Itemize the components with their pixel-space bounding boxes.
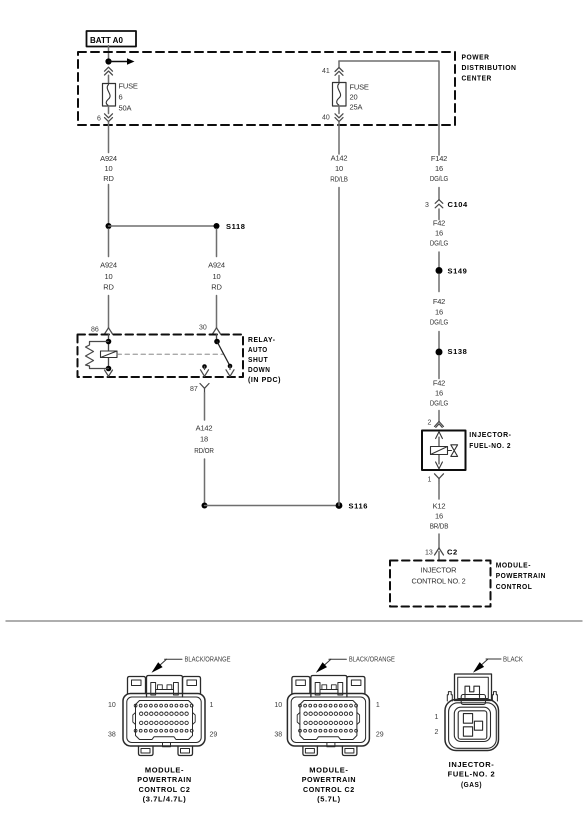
svg-text:2: 2 <box>435 729 439 736</box>
svg-text:INJECTOR-: INJECTOR- <box>449 760 495 769</box>
left ear <box>447 692 452 701</box>
svg-text:10: 10 <box>274 702 282 709</box>
power distribution center dashed box <box>78 52 455 125</box>
wire label A142 18 RD/OR <box>194 423 214 455</box>
right mounting ear <box>183 677 201 694</box>
BLACK/ORANGE leader (middle) <box>316 657 395 673</box>
svg-text:S149: S149 <box>448 266 468 275</box>
injector 2-way connector face <box>445 674 499 751</box>
section divider <box>6 620 582 622</box>
node junction at S116 row <box>202 503 208 509</box>
svg-text:FUEL-NO. 2: FUEL-NO. 2 <box>448 770 496 779</box>
pin 2 connector half <box>428 420 444 428</box>
svg-text:38: 38 <box>108 732 116 739</box>
svg-text:16: 16 <box>435 229 443 238</box>
body shells <box>445 700 499 751</box>
wire to C104 <box>438 188 440 200</box>
svg-text:CONTROL NO. 2: CONTROL NO. 2 <box>412 576 466 585</box>
injector FUEL-NO.2 box <box>422 431 466 471</box>
svg-text:50A: 50A <box>119 103 132 112</box>
svg-text:1: 1 <box>435 714 439 721</box>
svg-text:POWERTRAIN: POWERTRAIN <box>302 775 356 784</box>
svg-text:(GAS): (GAS) <box>461 780 482 789</box>
wire right branch down <box>216 229 218 257</box>
wire A142 long run to S116 <box>338 188 340 506</box>
wire label F42 16 DG/LG (3) <box>430 379 448 408</box>
wire below C104 <box>438 209 440 220</box>
svg-text:INJECTOR: INJECTOR <box>421 566 458 575</box>
relay switch <box>214 335 234 377</box>
wire to relay pin 86 <box>108 296 110 328</box>
svg-text:25A: 25A <box>350 103 363 112</box>
left mounting ear <box>128 677 146 694</box>
outer shell <box>123 694 205 747</box>
pin holes row 20-29 <box>140 721 189 724</box>
wire to S116 <box>204 459 206 506</box>
in-line connector chevrons above fuse 20 <box>335 68 343 76</box>
relay coil branch wire <box>108 335 110 369</box>
svg-text:C2: C2 <box>447 548 458 557</box>
svg-text:20: 20 <box>350 93 358 102</box>
svg-text:C104: C104 <box>448 200 469 209</box>
svg-text:(3.7L/4.7L): (3.7L/4.7L) <box>143 794 187 803</box>
label POWER DISTRIBUTION CENTER <box>462 52 517 82</box>
label INJECTOR-FUEL-NO.2 (GAS) <box>448 760 496 789</box>
injector connector pin numbers <box>435 714 439 736</box>
svg-text:6: 6 <box>97 115 101 122</box>
wire A924 upper segment <box>108 122 110 152</box>
label INJECTOR-FUEL-NO.2 <box>469 430 511 450</box>
wire to relay pin 30 <box>216 296 218 328</box>
svg-text:41: 41 <box>322 68 330 75</box>
wire horizontal feed to F142 <box>339 61 439 125</box>
svg-text:BATT A0: BATT A0 <box>90 36 123 45</box>
wire label K12 16 BR/DB <box>430 501 449 530</box>
svg-text:K12: K12 <box>433 501 446 510</box>
fuse F20 <box>333 83 369 112</box>
wire F142 out of PDC <box>438 125 440 155</box>
svg-text:1: 1 <box>376 702 380 709</box>
svg-text:FUEL-NO. 2: FUEL-NO. 2 <box>469 441 511 450</box>
relay coil resistor zigzag <box>86 342 109 369</box>
pin 1 connector half <box>428 474 444 484</box>
svg-text:16: 16 <box>435 511 443 520</box>
svg-text:10: 10 <box>105 164 113 173</box>
wire fuse 6 to pin 6 <box>108 106 110 114</box>
wire label A142 10 RD/LB <box>330 154 348 184</box>
svg-text:F142: F142 <box>431 154 447 163</box>
PCM 38-way connector face (5.7L) <box>287 676 369 756</box>
wire to S149 <box>438 252 440 267</box>
svg-text:RD: RD <box>103 283 114 292</box>
svg-text:29: 29 <box>376 732 384 739</box>
pin cavities <box>463 714 472 724</box>
pin 13 connector C2 <box>425 548 458 561</box>
wire BATT A0 to junction <box>108 46 110 62</box>
svg-text:RD/OR: RD/OR <box>194 446 214 455</box>
in-line connector chevrons below fuse 6 <box>105 114 113 122</box>
wire to fuse 20 <box>338 76 340 83</box>
svg-text:86: 86 <box>91 326 99 333</box>
svg-text:CONTROL C2: CONTROL C2 <box>139 785 191 794</box>
wire label F42 16 DG/LG (2) <box>430 297 448 327</box>
wire A142 upper segment <box>204 393 206 420</box>
svg-text:S116: S116 <box>349 501 369 510</box>
wire label A924 10 RD (right) <box>208 261 225 292</box>
svg-text:CENTER: CENTER <box>462 74 492 83</box>
svg-text:(5.7L): (5.7L) <box>317 794 341 803</box>
node junction at BATT feed <box>105 58 111 64</box>
wire fuse 20 to pin 40 <box>338 106 340 114</box>
svg-text:1: 1 <box>428 477 432 484</box>
wire to PCM pin 13 <box>438 534 440 548</box>
right ear <box>492 692 497 701</box>
svg-text:40: 40 <box>322 115 330 122</box>
svg-text:MODULE-: MODULE- <box>309 766 348 775</box>
PCM connector pin numbers (middle) <box>274 702 383 739</box>
latch tower <box>147 676 183 698</box>
svg-text:16: 16 <box>435 389 443 398</box>
svg-text:MODULE-: MODULE- <box>496 560 531 569</box>
pin holes row 11-19 <box>140 712 189 715</box>
wire to injector pin 2 <box>438 411 440 422</box>
svg-text:29: 29 <box>210 732 218 739</box>
wire fuse 20 top / feed <box>338 61 340 67</box>
relay coil exit chevron <box>105 370 113 376</box>
svg-text:13: 13 <box>425 549 433 556</box>
BLACK leader (right) <box>473 656 523 672</box>
svg-text:BLACK/ORANGE: BLACK/ORANGE <box>349 657 395 664</box>
svg-text:S138: S138 <box>448 347 468 356</box>
node junction left <box>106 223 112 229</box>
svg-text:POWERTRAIN: POWERTRAIN <box>496 571 546 580</box>
svg-text:RD: RD <box>211 283 222 292</box>
BLACK/ORANGE leader (left) <box>152 657 231 673</box>
splice S138 <box>436 349 443 356</box>
relay mechanical link (dashed) <box>117 353 224 355</box>
wire K12 upper segment <box>438 484 440 500</box>
svg-text:10: 10 <box>105 272 113 281</box>
svg-text:A924: A924 <box>100 154 117 163</box>
svg-text:16: 16 <box>435 164 443 173</box>
PCM 38-way connector face (3.7L/4.7L) <box>123 676 205 756</box>
svg-text:10: 10 <box>335 164 343 173</box>
svg-text:F42: F42 <box>433 379 445 388</box>
svg-text:AUTO: AUTO <box>248 345 268 354</box>
svg-text:A142: A142 <box>196 423 213 432</box>
svg-text:(IN PDC): (IN PDC) <box>248 375 281 384</box>
svg-text:MODULE-: MODULE- <box>145 766 184 775</box>
relay ASD dashed box <box>78 335 244 378</box>
svg-text:RD/LB: RD/LB <box>330 175 348 184</box>
svg-text:30: 30 <box>199 324 207 331</box>
svg-text:1: 1 <box>210 702 214 709</box>
arrow to other circuits <box>109 58 135 64</box>
latch tower <box>455 674 492 701</box>
label MODULE-POWERTRAIN CONTROL <box>496 560 546 590</box>
svg-text:S118: S118 <box>226 222 246 231</box>
svg-text:A142: A142 <box>331 154 348 163</box>
svg-text:FUSE: FUSE <box>350 83 369 92</box>
battery feed box BATT A0 <box>87 31 137 47</box>
svg-text:DG/LG: DG/LG <box>430 239 448 248</box>
svg-text:SHUT: SHUT <box>248 355 268 364</box>
pin holes row 1-10 <box>134 704 193 707</box>
splice S149 <box>436 267 443 274</box>
svg-text:F42: F42 <box>433 219 445 228</box>
in-line connector chevrons below fuse 20 <box>335 114 343 122</box>
svg-text:16: 16 <box>435 308 443 317</box>
module powertrain control dashed box <box>390 561 491 607</box>
label RELAY-AUTO SHUT DOWN (IN PDC) <box>248 335 281 384</box>
wire to fuse 6 <box>108 75 110 83</box>
svg-text:BLACK/ORANGE: BLACK/ORANGE <box>185 657 231 664</box>
pin field <box>136 701 193 740</box>
svg-text:DG/LG: DG/LG <box>430 318 448 327</box>
bottom feet <box>139 746 154 756</box>
svg-text:10: 10 <box>213 272 221 281</box>
svg-text:F42: F42 <box>433 297 445 306</box>
svg-text:38: 38 <box>274 732 282 739</box>
PCM connector pin numbers (left) <box>108 702 217 739</box>
svg-text:DISTRIBUTION: DISTRIBUTION <box>462 63 517 72</box>
svg-text:87: 87 <box>190 386 198 393</box>
svg-text:DG/LG: DG/LG <box>430 174 448 183</box>
wire below S138 <box>438 356 440 379</box>
injector internal symbol <box>431 432 458 469</box>
svg-text:BR/DB: BR/DB <box>430 521 449 530</box>
wire to S138 <box>438 332 440 349</box>
wire to splice S118 <box>109 225 217 227</box>
pin holes row 30-38 <box>134 729 193 732</box>
wire A142 upper segment (fuse 20 column) <box>338 122 340 154</box>
splice S118 <box>214 223 220 229</box>
svg-text:CONTROL C2: CONTROL C2 <box>303 785 355 794</box>
wire label A924 10 RD (left) <box>100 154 117 183</box>
svg-text:DOWN: DOWN <box>248 365 270 374</box>
svg-text:10: 10 <box>108 702 116 709</box>
label MODULE-POWERTRAIN CONTROL C2 (5.7L) <box>302 766 356 804</box>
svg-text:INJECTOR-: INJECTOR- <box>469 430 511 439</box>
svg-text:6: 6 <box>119 92 123 101</box>
svg-text:A924: A924 <box>100 261 117 270</box>
svg-text:18: 18 <box>200 434 208 443</box>
svg-text:POWER: POWER <box>462 52 490 61</box>
wire to S118 junction <box>108 185 110 227</box>
svg-text:3: 3 <box>425 202 429 209</box>
svg-text:CONTROL: CONTROL <box>496 582 533 591</box>
svg-text:RELAY-: RELAY- <box>248 335 276 344</box>
svg-text:2: 2 <box>428 420 432 427</box>
label MODULE-POWERTRAIN CONTROL C2 (3.7L/4.7L) <box>137 766 191 804</box>
relay coil element <box>101 351 118 358</box>
wire label F142 16 DG/LG <box>430 154 448 183</box>
svg-text:FUSE: FUSE <box>119 81 138 90</box>
relay contact 87 stub <box>201 364 209 376</box>
svg-text:A924: A924 <box>208 261 225 270</box>
connector C104 <box>425 200 468 209</box>
svg-text:POWERTRAIN: POWERTRAIN <box>137 775 191 784</box>
svg-text:RD: RD <box>103 174 114 183</box>
wire label F42 16 DG/LG (1) <box>430 219 448 248</box>
svg-text:DG/LG: DG/LG <box>430 399 448 408</box>
in-line connector chevrons above fuse 6 <box>105 67 113 75</box>
svg-text:BLACK: BLACK <box>503 656 523 663</box>
wire below S149 <box>438 274 440 292</box>
wire label A924 10 RD (left lower) <box>100 261 117 292</box>
wire left branch down <box>108 229 110 257</box>
fuse F6 <box>103 81 138 112</box>
splice S116 <box>336 502 343 509</box>
